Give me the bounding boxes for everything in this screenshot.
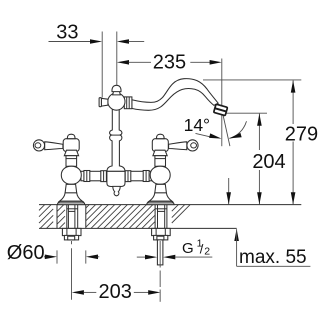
countertop hatch left segment (39, 205, 45, 211)
left centerline (71, 241, 73, 244)
right shank walls (157, 205, 159, 229)
extension line stub axis (101, 32, 103, 98)
dimension 235 arrow right (190, 61, 210, 63)
svg-text:279: 279 (285, 123, 318, 145)
dimension 33 arrow right (117, 39, 129, 44)
svg-text:203: 203 (99, 281, 132, 303)
dimension 33 line right tail (129, 41, 145, 43)
reference line spout top (203, 79, 301, 81)
angle arc (229, 121, 246, 138)
spout column base collar and shaft (107, 110, 125, 172)
dimension 203 (72, 290, 84, 295)
svg-text:14°: 14° (184, 115, 210, 135)
finial knob (112, 85, 121, 91)
dimension 235 arrow left (117, 60, 129, 65)
svg-text:33: 33 (56, 21, 78, 43)
right centerline (159, 241, 161, 268)
handle ball ring (33, 140, 44, 151)
countertop hatch strip between ext line and hole (56, 204, 59, 207)
dimension 279 line (292, 80, 294, 204)
handle top nub (67, 134, 75, 139)
bridge rib left pair (84, 171, 90, 182)
escutcheon base ring (57, 201, 85, 204)
right threaded tail (157, 240, 163, 265)
countertop top surface line (39, 204, 301, 206)
bridge rib inner-right (125, 171, 131, 182)
left hex nut (62, 228, 81, 235)
reference line spout outlet (225, 112, 267, 114)
svg-text:2: 2 (204, 245, 210, 257)
column sphere (108, 93, 125, 110)
svg-text:max. 55: max. 55 (239, 247, 307, 268)
svg-text:235: 235 (153, 52, 186, 74)
right shank hole edges (154, 205, 156, 229)
svg-text:Ø60: Ø60 (7, 242, 45, 264)
left shank hole edges (66, 205, 68, 229)
handle lever arm (45, 142, 63, 150)
valve shaft (65, 184, 77, 193)
angle slant line (223, 114, 230, 146)
left valve assembly (33, 134, 85, 204)
valve body (61, 166, 81, 184)
spout root collar (124, 97, 132, 109)
diameter 60 extension lines (56, 250, 58, 263)
max55 upper pointer (228, 178, 230, 204)
dimension 33 arrow left (90, 39, 102, 44)
G half thread dimension (137, 256, 146, 258)
left lock nut (64, 235, 78, 240)
left stub outlet (101, 98, 108, 106)
aerator (214, 104, 228, 116)
left shank walls (67, 205, 69, 229)
valve neck (66, 156, 77, 167)
bridge rib right pair (143, 171, 149, 182)
dimension 33 line left tail (49, 41, 91, 43)
right hex nut (152, 228, 171, 235)
trumpet flare (60, 193, 83, 201)
tee block (107, 171, 125, 186)
countertop hatch right triangle segment (172, 205, 179, 212)
right lock nut (154, 235, 168, 240)
max55 lower pointer (234, 229, 239, 241)
countertop bottom surface line (39, 227, 237, 229)
angle leader (196, 133, 211, 137)
spout tube (132, 79, 218, 111)
right valve assembly (mirror) (147, 134, 199, 204)
finial neck (113, 92, 121, 95)
hub collar (64, 150, 78, 156)
svg-text:/: / (200, 242, 204, 257)
diameter 60 arrows (44, 256, 46, 258)
drop finial under tee (113, 186, 120, 195)
handle hub (63, 139, 79, 152)
svg-text:G: G (182, 240, 194, 257)
left escutcheon extension lines through deck (56, 205, 58, 229)
countertop hatch center segment (86, 205, 90, 209)
extension line column axis (116, 32, 118, 86)
bridge tube (81, 171, 152, 181)
svg-text:204: 204 (252, 151, 285, 173)
bridge rib inner-left (101, 171, 107, 182)
dimension 204 line (258, 114, 260, 205)
extension line spout end (221, 59, 223, 147)
